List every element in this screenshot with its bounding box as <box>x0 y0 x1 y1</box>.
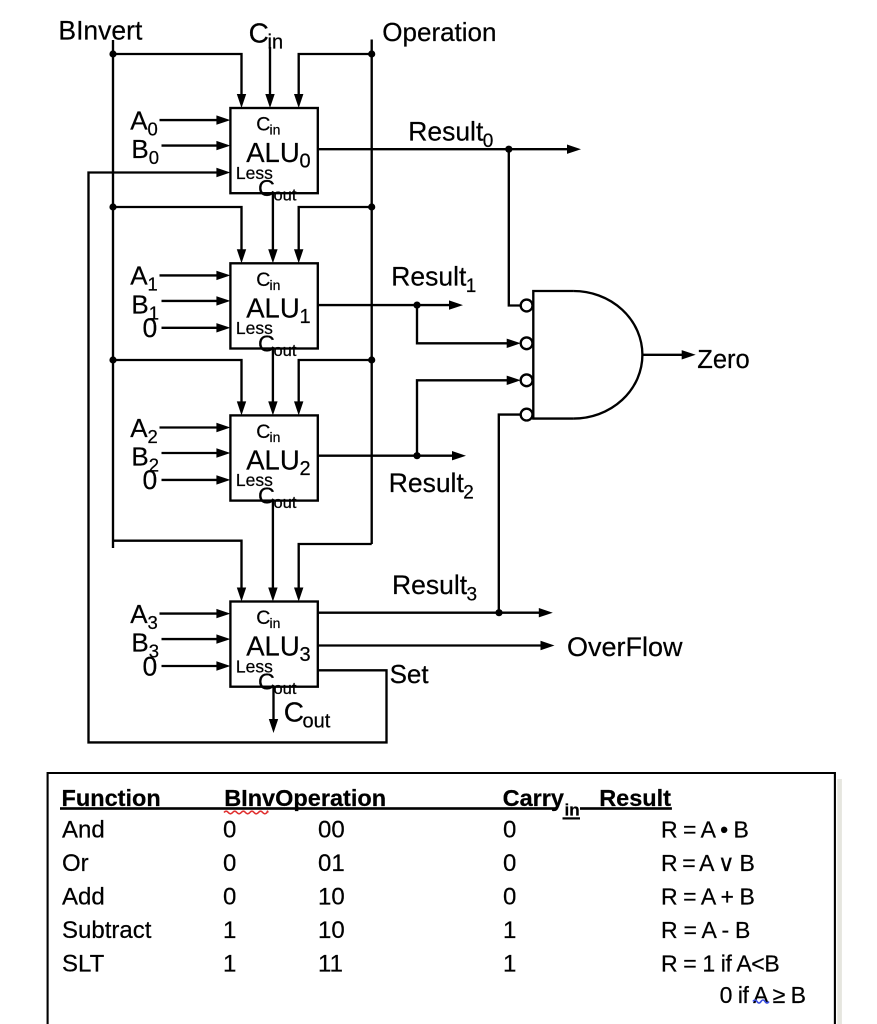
svg-text:C: C <box>258 330 275 356</box>
wire Result2 to gate input 3 <box>417 380 509 455</box>
inverting bubble input 2 <box>521 337 533 349</box>
svg-text:Carry: Carry <box>503 785 564 811</box>
svg-text:B: B <box>131 134 148 164</box>
wire A1 input arrow <box>160 274 219 276</box>
svg-text:R = A ∨ B: R = A ∨ B <box>661 850 755 876</box>
wire Operation vertical bus <box>371 40 373 545</box>
svg-text:R = A • B: R = A • B <box>661 816 749 842</box>
wire Operation branch to ALU0 <box>299 54 372 96</box>
wire Set feedback (ALU3 Set to ALU0 Less) <box>89 173 387 743</box>
svg-text:Zero: Zero <box>697 346 749 374</box>
wire BInvert branch to ALU0 <box>113 54 242 96</box>
junction node Result2 <box>413 452 420 459</box>
wire 0 input arrow to ALU2 Less <box>162 479 219 481</box>
svg-text:0: 0 <box>148 118 158 139</box>
wire B2 input arrow <box>162 452 219 454</box>
wire Result1 output <box>318 304 451 306</box>
wire Operation branch to ALU2 <box>299 360 372 403</box>
svg-text:Subtract: Subtract <box>62 917 152 944</box>
svg-text:1: 1 <box>223 917 236 944</box>
wire Operation branch to ALU1 <box>299 207 372 251</box>
svg-text:in: in <box>270 277 281 293</box>
svg-text:in: in <box>270 429 281 445</box>
svg-text:3: 3 <box>467 585 478 606</box>
wire A3 input arrow <box>160 612 219 614</box>
wire OverFlow output <box>318 644 543 646</box>
svg-text:R = 1 if A<B: R = 1 if A<B <box>661 950 780 976</box>
wire B0 input arrow <box>162 144 219 146</box>
header underline left segment <box>60 807 557 810</box>
svg-text:A: A <box>130 413 148 443</box>
svg-text:out: out <box>274 342 297 360</box>
svg-text:2: 2 <box>300 458 311 480</box>
wire BInvert branch to ALU3 <box>113 541 242 590</box>
svg-text:0 if A ≥ B: 0 if A ≥ B <box>720 982 806 1008</box>
svg-text:A: A <box>130 261 148 291</box>
svg-text:0: 0 <box>223 883 236 910</box>
svg-text:1: 1 <box>300 306 311 328</box>
svg-text:C: C <box>256 114 270 136</box>
table frame <box>48 773 835 1024</box>
svg-text:0: 0 <box>143 651 158 681</box>
ALU1 box <box>230 263 317 348</box>
svg-text:Result: Result <box>392 570 468 600</box>
svg-text:R = A - B: R = A - B <box>661 917 750 943</box>
wire BInvert branch to ALU1 <box>113 207 242 251</box>
svg-text:0: 0 <box>143 465 158 495</box>
junction node Result1 <box>413 302 420 309</box>
svg-text:Function: Function <box>62 785 161 811</box>
wire B3 input arrow <box>162 638 219 640</box>
svg-text:C: C <box>249 17 269 48</box>
svg-text:0: 0 <box>483 131 494 152</box>
junction on BInvert bus stage 1 <box>109 203 116 210</box>
ALU0 box <box>230 108 317 193</box>
wire Cout output of ALU3 <box>272 687 274 721</box>
svg-text:11: 11 <box>318 950 343 977</box>
wire BInvert branch to ALU2 <box>113 360 242 403</box>
svg-text:00: 00 <box>318 816 345 843</box>
svg-text:in: in <box>565 800 580 819</box>
svg-text:0: 0 <box>300 151 311 173</box>
inverting bubble input 4 <box>521 409 533 421</box>
zero-detect gate U1 (AND shape) <box>533 291 573 419</box>
svg-text:Or: Or <box>62 850 89 877</box>
svg-text:A: A <box>130 105 148 135</box>
svg-text:out: out <box>274 187 297 205</box>
ALU3 box <box>230 602 317 687</box>
header underline right segment <box>580 807 672 810</box>
table right shadow <box>837 779 842 1024</box>
svg-text:0: 0 <box>503 816 516 843</box>
junction node Result0 <box>505 146 512 153</box>
svg-text:in: in <box>270 122 281 138</box>
wire Result1 to gate input 2 <box>417 305 509 343</box>
svg-text:1: 1 <box>503 950 516 977</box>
svg-text:R = A + B: R = A + B <box>661 883 755 909</box>
svg-text:0: 0 <box>223 816 236 843</box>
svg-text:C: C <box>284 697 304 728</box>
junction on BInvert bus stage 2 <box>109 356 116 363</box>
inverting bubble input 3 <box>521 374 533 386</box>
svg-text:1: 1 <box>223 950 236 977</box>
svg-text:C: C <box>258 175 275 201</box>
svg-text:C: C <box>256 269 270 291</box>
wire 0 input arrow to ALU1 Less <box>162 327 219 329</box>
grammar squiggle under A >= <box>753 1000 769 1003</box>
wire B1 input arrow <box>162 300 219 302</box>
svg-text:A: A <box>130 599 148 629</box>
header underline under subscript in <box>563 817 581 819</box>
svg-text:1: 1 <box>466 276 477 297</box>
svg-text:2: 2 <box>148 426 158 447</box>
svg-text:Result: Result <box>408 116 484 146</box>
wire A2 input arrow <box>160 426 219 428</box>
wire carry from ALU2 Cout to ALU3 Cin <box>272 501 274 590</box>
wire Result0 output <box>318 148 569 150</box>
wire carry from ALU1 Cout to ALU2 Cin <box>272 349 274 404</box>
wire Result3 output <box>318 612 541 614</box>
inverting bubble input 1 <box>521 300 533 312</box>
wire Operation branch to ALU3 <box>299 544 372 590</box>
junction on Operation bus stage 2 <box>368 356 375 363</box>
svg-text:1: 1 <box>148 274 158 295</box>
svg-text:0: 0 <box>503 850 516 877</box>
wire Zero output <box>642 354 683 356</box>
svg-text:10: 10 <box>318 917 345 944</box>
wire Result3 to gate input 4 <box>499 415 521 613</box>
svg-text:0: 0 <box>143 313 158 343</box>
wire BInvert vertical bus <box>112 40 114 548</box>
svg-text:SLT: SLT <box>62 950 105 977</box>
svg-text:C: C <box>256 421 270 443</box>
junction on Operation bus stage 0 <box>368 50 375 57</box>
svg-text:Operation: Operation <box>382 17 496 47</box>
svg-text:in: in <box>270 615 281 631</box>
svg-text:out: out <box>274 680 297 698</box>
wire 0 input arrow to ALU3 Less <box>162 665 219 667</box>
svg-text:Add: Add <box>62 883 105 910</box>
wire Result2 output <box>318 455 454 457</box>
svg-text:C: C <box>258 482 275 508</box>
spellcheck squiggle under BInv <box>224 811 268 814</box>
svg-text:BInvOperation: BInvOperation <box>224 785 386 811</box>
junction node Result3 <box>495 609 502 616</box>
svg-text:1: 1 <box>503 917 516 944</box>
svg-text:0: 0 <box>503 883 516 910</box>
svg-text:Result: Result <box>391 261 467 291</box>
svg-text:2: 2 <box>463 483 474 504</box>
svg-text:10: 10 <box>318 883 345 910</box>
junction on Operation bus stage 1 <box>368 203 375 210</box>
wire Result0 to gate input 1 <box>509 149 521 305</box>
svg-text:Result: Result <box>389 468 465 498</box>
wire carry from ALU0 Cout to ALU1 Cin <box>272 193 274 251</box>
svg-text:out: out <box>274 494 297 512</box>
svg-text:0: 0 <box>149 147 159 168</box>
svg-text:Result: Result <box>599 785 671 811</box>
svg-text:Set: Set <box>390 659 430 689</box>
svg-text:3: 3 <box>148 612 158 633</box>
wire A0 input arrow <box>160 119 219 121</box>
svg-text:0: 0 <box>223 850 236 877</box>
svg-text:OverFlow: OverFlow <box>567 632 683 662</box>
svg-text:01: 01 <box>318 850 345 877</box>
svg-text:out: out <box>303 711 331 733</box>
svg-text:And: And <box>62 816 105 843</box>
junction on BInvert bus stage 0 <box>109 50 116 57</box>
wire Cin input drop into ALU0 <box>269 47 271 96</box>
ALU2 box <box>230 415 317 500</box>
svg-text:3: 3 <box>300 644 311 666</box>
svg-text:BInvert: BInvert <box>58 16 143 46</box>
svg-text:C: C <box>256 607 270 629</box>
